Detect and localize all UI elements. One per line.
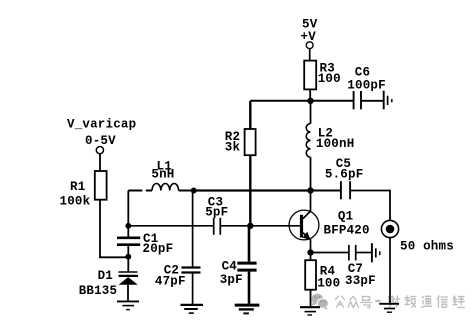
svg-text:Q1: Q1 [338,210,353,224]
svg-text:3k: 3k [225,141,241,155]
svg-text:C4: C4 [222,259,238,273]
svg-text:20pF: 20pF [143,242,174,256]
svg-text:100k: 100k [60,194,91,208]
svg-text:100: 100 [318,72,341,86]
svg-text:50 ohms: 50 ohms [400,239,454,253]
svg-text:3pF: 3pF [220,273,243,287]
svg-text:BB135: BB135 [79,284,118,298]
svg-text:5.6pF: 5.6pF [325,168,364,182]
svg-text:33pF: 33pF [345,274,376,288]
svg-text:100nH: 100nH [316,137,355,151]
svg-text:0-5V: 0-5V [85,134,116,148]
svg-text:D1: D1 [98,269,113,283]
svg-text:V_varicap: V_varicap [67,118,136,132]
svg-text:R1: R1 [70,180,85,194]
svg-text:100: 100 [317,277,340,291]
svg-text:5pF: 5pF [205,205,228,219]
svg-text:BFP420: BFP420 [324,224,370,238]
svg-text:5nH: 5nH [151,167,174,181]
svg-text:+V: +V [301,30,317,44]
svg-text:100pF: 100pF [347,78,386,92]
svg-text:47pF: 47pF [155,275,186,289]
